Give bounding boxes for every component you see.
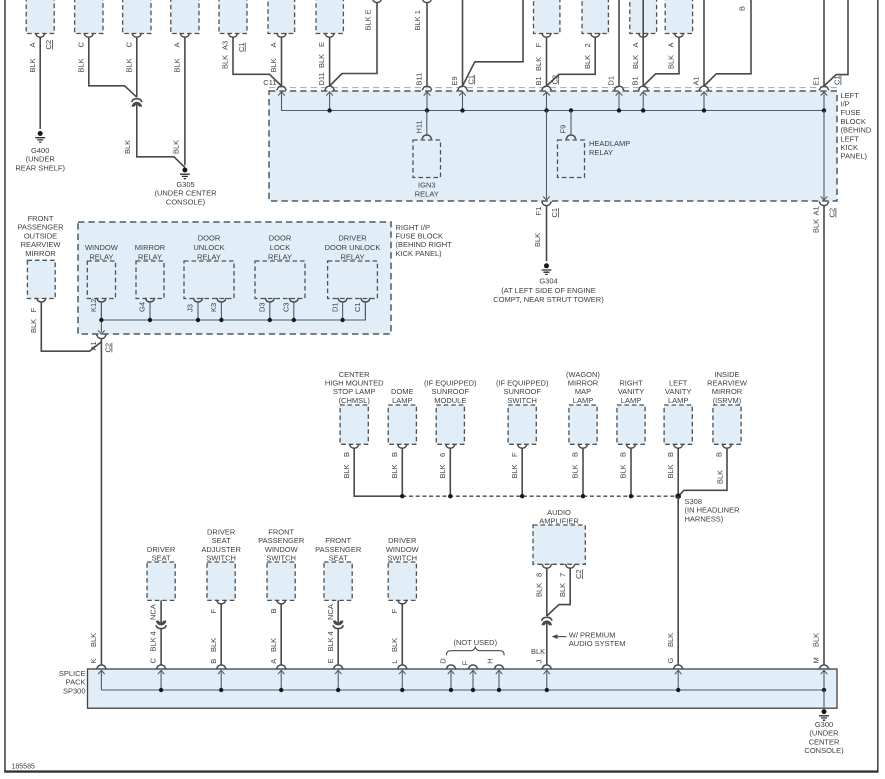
wire BLK E from box7 to D11 <box>329 37 331 86</box>
svg-text:D3: D3 <box>258 302 267 312</box>
wire BLK C from box2 joining splice to G305 <box>89 37 137 97</box>
svg-text:B: B <box>715 452 724 457</box>
left I/P internal stub at x=704 <box>703 92 705 111</box>
svg-text:D11: D11 <box>317 72 326 85</box>
svg-text:(AT LEFT SIDE OF ENGINE: (AT LEFT SIDE OF ENGINE <box>501 286 596 295</box>
relay box MIRROR RELAY <box>136 261 164 299</box>
splice pack entry connector at x=161.1 <box>156 665 166 669</box>
svg-text:BLK: BLK <box>715 470 724 484</box>
wire NCA from front passenger seat <box>337 600 339 624</box>
IGN3 relay stub wire H11 <box>426 111 428 136</box>
svg-text:G400: G400 <box>31 146 49 155</box>
wire BLK from A1 C2 to splice pack pin K <box>100 339 102 665</box>
wire BLK C from box3 <box>136 37 138 97</box>
front passenger seat box <box>324 562 352 600</box>
left I/P through line to A1 exit <box>823 111 825 200</box>
arrow into C11 <box>278 92 285 96</box>
splice pack entry connector at x=338.2 <box>333 665 343 669</box>
svg-text:BLK: BLK <box>171 140 180 154</box>
pin collar B <box>626 444 636 448</box>
svg-text:MIRROR: MIRROR <box>25 249 56 258</box>
svg-text:LAMP: LAMP <box>668 396 688 405</box>
front passenger mirror box <box>27 260 55 298</box>
driver seat adjuster switch box <box>207 562 235 600</box>
svg-text:SWITCH: SWITCH <box>206 554 236 563</box>
svg-text:PASSENGER: PASSENGER <box>315 545 362 554</box>
pin collar B <box>578 444 588 448</box>
svg-text:F: F <box>209 609 218 614</box>
svg-text:WINDOW: WINDOW <box>386 545 420 554</box>
svg-text:SEAT: SEAT <box>212 536 231 545</box>
svg-text:LAMP: LAMP <box>573 396 593 405</box>
svg-text:PASSENGER: PASSENGER <box>17 223 64 232</box>
svg-text:B: B <box>209 659 218 664</box>
connector C11 collar <box>276 86 286 90</box>
connector A1 C2 collar below right block <box>96 335 106 339</box>
brace over not used pins <box>446 647 504 655</box>
svg-text:DRIVER: DRIVER <box>207 528 236 537</box>
mirror pin collar F <box>36 298 46 302</box>
svg-text:F: F <box>510 452 519 457</box>
dashed splice bus segments S308 <box>402 495 678 497</box>
svg-text:CONSOLE): CONSOLE) <box>804 746 844 755</box>
svg-text:AUDIO: AUDIO <box>547 508 571 517</box>
pin collar at x=40.2 <box>35 33 45 37</box>
component box (IF EQUIPPED) SUNROOF MODULE <box>436 405 464 444</box>
relay HEADLAMP box <box>558 140 585 178</box>
svg-text:KICK PANEL): KICK PANEL) <box>396 249 443 258</box>
svg-text:S308: S308 <box>685 497 703 506</box>
svg-text:REARVIEW: REARVIEW <box>21 240 62 249</box>
svg-text:B11: B11 <box>415 73 424 86</box>
svg-text:BLOCK: BLOCK <box>841 117 866 126</box>
svg-text:BLK: BLK <box>533 233 542 247</box>
svg-text:RELAY: RELAY <box>197 252 221 261</box>
svg-text:B: B <box>619 452 628 457</box>
pin collar at x=233 <box>228 33 238 37</box>
svg-text:BLK: BLK <box>631 55 640 69</box>
wire BLK 4 to splice pack pin E <box>337 629 339 665</box>
svg-text:(NOT USED): (NOT USED) <box>453 638 497 647</box>
ground G304 <box>542 263 552 274</box>
svg-text:B: B <box>666 452 675 457</box>
splice pack entry connector at x=824 <box>819 665 829 669</box>
relay pin D3 <box>265 298 275 302</box>
component box CENTER HIGH MOUNTED STOP LAMP (CHMSL) <box>340 405 368 444</box>
pin collar B <box>722 444 732 448</box>
wire routed to E9 <box>463 0 524 86</box>
svg-text:BLK: BLK <box>76 58 85 72</box>
component box RIGHT VANITY LAMP <box>617 405 645 444</box>
wire BLK from ISRVM to S308 <box>678 448 727 496</box>
driver seat box <box>147 562 175 600</box>
wire BLK A3 from box5 to C11 <box>233 37 282 86</box>
svg-text:DOOR UNLOCK: DOOR UNLOCK <box>325 243 381 252</box>
svg-text:(UNDER: (UNDER <box>809 729 839 738</box>
ground G400 <box>35 131 45 142</box>
pin collar F <box>517 444 527 448</box>
svg-text:A1: A1 <box>692 76 701 85</box>
svg-text:BLK: BLK <box>619 464 628 478</box>
svg-text:ADJUSTER: ADJUSTER <box>201 545 241 554</box>
svg-text:H11: H11 <box>414 120 423 133</box>
svg-text:HIGH MOUNTED: HIGH MOUNTED <box>325 379 384 388</box>
relay pin C3 <box>289 298 299 302</box>
svg-text:PASSENGER: PASSENGER <box>258 536 305 545</box>
pin collar at x=136.8 <box>132 33 142 37</box>
in-line connector on amplifier ground wire <box>542 617 552 625</box>
connector E9 collar <box>457 86 467 90</box>
svg-text:E: E <box>326 658 335 663</box>
left I/P fuse block body <box>269 91 837 201</box>
relay pin D1 <box>338 298 348 302</box>
pin collar 6 <box>445 444 455 448</box>
svg-text:SEAT: SEAT <box>152 554 171 563</box>
wire from component x=402.3 down to splice bus <box>401 448 403 496</box>
svg-text:FRONT: FRONT <box>268 528 294 537</box>
relay pin K12 <box>96 298 106 302</box>
component box (cropped) above wire x=546.5 <box>534 0 560 34</box>
svg-text:C: C <box>124 42 133 48</box>
svg-text:BLK: BLK <box>124 58 133 72</box>
svg-text:C: C <box>76 42 85 48</box>
driver window switch box <box>388 562 416 600</box>
svg-text:A: A <box>28 42 37 47</box>
wire BLK E from cropped box to D11 <box>330 3 377 86</box>
splice pack entry connector at x=678.2 <box>673 665 683 669</box>
svg-text:LAMP: LAMP <box>392 396 412 405</box>
svg-text:E1: E1 <box>812 76 821 85</box>
svg-text:A: A <box>631 42 640 47</box>
svg-text:RIGHT: RIGHT <box>619 379 643 388</box>
svg-text:REAR SHELF): REAR SHELF) <box>15 163 65 172</box>
wire routed to E1 <box>824 0 848 86</box>
svg-text:NCA: NCA <box>326 604 335 620</box>
driver window switch pin collar F <box>397 600 407 604</box>
component box (cropped) above wire x=88.8 <box>75 0 103 34</box>
svg-text:LEFT: LEFT <box>669 379 688 388</box>
left I/P internal stub at x=329.6 <box>329 92 331 111</box>
svg-text:RELAY: RELAY <box>589 148 613 157</box>
svg-text:BLK: BLK <box>583 55 592 69</box>
svg-text:BLK: BLK <box>812 219 821 233</box>
svg-text:BLK: BLK <box>558 583 567 597</box>
splice pack entry connector at x=546.8 <box>542 665 552 669</box>
pin collar B <box>673 444 683 448</box>
right I/P fuse block body <box>78 222 391 334</box>
svg-text:B: B <box>390 452 399 457</box>
svg-text:(BEHIND RIGHT: (BEHIND RIGHT <box>396 240 453 249</box>
junction dots on right I/P bus <box>148 318 152 322</box>
svg-text:SUNROOF: SUNROOF <box>503 387 541 396</box>
splice pack entry connector at x=402.3 <box>397 665 407 669</box>
svg-text:RELAY: RELAY <box>89 252 113 261</box>
relay box WINDOW RELAY <box>87 261 115 299</box>
svg-text:LEFT: LEFT <box>841 91 860 100</box>
svg-text:CENTER: CENTER <box>339 370 370 379</box>
svg-text:K3: K3 <box>209 303 218 312</box>
svg-text:OUTSIDE: OUTSIDE <box>24 231 57 240</box>
svg-text:4: 4 <box>149 631 158 635</box>
svg-text:BLK: BLK <box>510 464 519 478</box>
svg-text:F9: F9 <box>559 125 568 134</box>
svg-text:BLK: BLK <box>571 464 580 478</box>
left I/P internal stub at x=462.5 <box>462 92 464 111</box>
svg-text:B1: B1 <box>534 76 543 85</box>
svg-text:C2: C2 <box>104 343 113 353</box>
splice pack internal bus <box>101 689 824 691</box>
svg-text:BLK: BLK <box>390 464 399 478</box>
svg-text:C11: C11 <box>263 78 276 87</box>
ground G305 <box>180 168 190 179</box>
svg-text:VANITY: VANITY <box>618 387 645 396</box>
svg-text:A: A <box>173 42 182 47</box>
wire BLK continuing to G305 <box>137 103 185 167</box>
K12 through line to A1 exit <box>100 302 102 332</box>
svg-text:SPLICE: SPLICE <box>59 669 86 678</box>
svg-text:(IN HEADLINER: (IN HEADLINER <box>685 506 741 515</box>
svg-text:C3: C3 <box>282 302 291 312</box>
pin collar at x=595.2 <box>590 33 600 37</box>
pin collar at x=546.5 <box>541 33 551 37</box>
svg-text:BLK 1: BLK 1 <box>413 10 422 30</box>
wire BLK from mirror to K12 junction <box>41 302 101 351</box>
connector B1 collar <box>541 86 551 90</box>
svg-text:DRIVER: DRIVER <box>147 545 176 554</box>
svg-text:B1: B1 <box>631 76 640 85</box>
svg-text:I/P: I/P <box>841 100 850 109</box>
svg-text:BLK: BLK <box>812 633 821 647</box>
svg-text:STOP LAMP: STOP LAMP <box>333 387 376 396</box>
wire BLK from F1 to G304 <box>546 206 548 262</box>
svg-text:BLK: BLK <box>531 647 545 656</box>
svg-text:HEADLAMP: HEADLAMP <box>589 139 630 148</box>
svg-text:C2: C2 <box>550 75 559 85</box>
wire BLK from A1 to splice pack pin M <box>823 206 825 665</box>
wire BLK 4 to splice pack pin C <box>160 629 162 665</box>
svg-text:SEAT: SEAT <box>329 554 348 563</box>
svg-text:B: B <box>269 608 278 613</box>
connector D1 collar <box>614 86 624 90</box>
wire BLK A from box4 to G305 <box>184 37 186 165</box>
left I/P internal stub at x=824 <box>823 92 825 111</box>
svg-text:KICK: KICK <box>841 143 859 152</box>
svg-text:A: A <box>269 42 278 47</box>
svg-text:DOOR: DOOR <box>269 234 292 243</box>
wire NCA from driver seat <box>160 600 162 624</box>
pin collar at x=184.9 <box>180 33 190 37</box>
svg-text:SWITCH: SWITCH <box>507 396 537 405</box>
svg-text:C1: C1 <box>833 75 842 85</box>
svg-text:HARNESS): HARNESS) <box>685 514 724 523</box>
svg-text:BLK: BLK <box>269 638 278 652</box>
wire BLK 2 from box13 to B1 <box>547 37 596 86</box>
connector E1 collar <box>819 86 829 90</box>
in-line connector on front passenger seat wire <box>333 621 343 629</box>
svg-text:SWITCH: SWITCH <box>266 554 296 563</box>
svg-text:(IF EQUIPPED): (IF EQUIPPED) <box>496 379 549 388</box>
relay pin G4 <box>145 298 155 302</box>
window switch pin collar B <box>276 600 286 604</box>
left I/P internal stub at x=619 <box>618 92 620 111</box>
svg-text:C1: C1 <box>466 75 475 85</box>
splice pack entry connector at x=499 <box>494 665 504 669</box>
pin collar B <box>349 444 359 448</box>
svg-text:REARVIEW: REARVIEW <box>707 379 748 388</box>
component box (cropped) above wire x=136.8 <box>123 0 151 34</box>
wire to E1 straight <box>823 0 825 86</box>
ground G300 <box>819 709 829 720</box>
svg-text:RELAY: RELAY <box>138 252 162 261</box>
svg-text:BLK: BLK <box>29 319 38 333</box>
svg-text:(CHMSL): (CHMSL) <box>339 396 371 405</box>
svg-text:IGN3: IGN3 <box>418 181 436 190</box>
adjuster switch pin collar F <box>216 600 226 604</box>
svg-text:G305: G305 <box>176 180 194 189</box>
component box (cropped) above wire x=233 <box>219 0 247 34</box>
svg-text:RELAY: RELAY <box>415 189 439 198</box>
component box (cropped) above wire x=184.9 <box>171 0 199 34</box>
connector B11 collar <box>422 86 432 90</box>
wire from component x=631 down to splice bus <box>630 448 632 496</box>
svg-text:LOCK: LOCK <box>270 243 290 252</box>
svg-text:RELAY: RELAY <box>268 252 292 261</box>
svg-text:SWITCH: SWITCH <box>388 554 418 563</box>
svg-text:F: F <box>461 660 470 665</box>
svg-text:SUNROOF: SUNROOF <box>432 387 470 396</box>
svg-text:185585: 185585 <box>12 763 35 770</box>
connector D11 collar <box>325 86 335 90</box>
wire BLK A from box6 to C11 <box>281 37 283 86</box>
svg-text:DRIVER: DRIVER <box>338 234 367 243</box>
wire BLK 1 to B11 <box>426 3 428 86</box>
svg-text:UNLOCK: UNLOCK <box>193 243 224 252</box>
wire BLK to splice pack pin L <box>401 604 403 665</box>
svg-text:COMPT, NEAR STRUT TOWER): COMPT, NEAR STRUT TOWER) <box>493 295 604 304</box>
svg-text:BLK: BLK <box>209 638 218 652</box>
svg-text:MODULE: MODULE <box>434 396 466 405</box>
wire BLK A from box15 routed to B1 second <box>643 37 679 86</box>
svg-text:(UNDER CENTER: (UNDER CENTER <box>154 189 217 198</box>
relay pin J3 <box>193 298 203 302</box>
svg-text:BLK: BLK <box>666 633 675 647</box>
svg-text:B: B <box>571 452 580 457</box>
headlamp relay stub wire F9 <box>570 111 572 136</box>
svg-text:C2: C2 <box>44 40 53 50</box>
connector row faint dashed line <box>269 87 837 89</box>
left I/P internal stub at x=643.2 <box>642 92 644 111</box>
svg-text:WINDOW: WINDOW <box>265 545 299 554</box>
svg-text:BLK: BLK <box>123 140 132 154</box>
svg-text:LEFT: LEFT <box>841 134 860 143</box>
left I/P internal stub at x=427 <box>426 92 428 111</box>
relay box DOOR UNLOCK RELAY <box>184 261 234 299</box>
audio amplifier box <box>533 525 585 564</box>
svg-text:(UNDER: (UNDER <box>26 155 56 164</box>
component box (cropped) above wire x=679 <box>665 0 692 34</box>
svg-text:BLK: BLK <box>390 638 399 652</box>
svg-text:RIGHT I/P: RIGHT I/P <box>396 223 430 232</box>
in-line connector on G305 wire <box>132 99 142 107</box>
svg-text:DRIVER: DRIVER <box>388 536 417 545</box>
pin collar at x=281.5 <box>276 33 286 37</box>
svg-text:AUDIO SYSTEM: AUDIO SYSTEM <box>569 639 626 648</box>
svg-text:F: F <box>390 609 399 614</box>
svg-text:LAMP: LAMP <box>621 396 641 405</box>
svg-text:(BEHIND: (BEHIND <box>841 126 872 135</box>
svg-text:BLK: BLK <box>269 58 278 72</box>
component box (cropped) above wire x=281.5 <box>268 0 295 34</box>
svg-text:8: 8 <box>535 573 544 577</box>
svg-text:DOME: DOME <box>391 387 414 396</box>
svg-text:C2: C2 <box>574 569 583 579</box>
svg-text:G4: G4 <box>138 302 147 312</box>
svg-text:6: 6 <box>438 453 447 457</box>
svg-text:INSIDE: INSIDE <box>714 370 739 379</box>
junction dots on splice pack bus <box>159 688 163 692</box>
splice pack entry connector at x=451 <box>446 665 456 669</box>
svg-text:J3: J3 <box>186 304 195 312</box>
svg-text:BLK: BLK <box>535 583 544 597</box>
svg-text:D1: D1 <box>330 302 339 312</box>
junction dots on splice bus <box>400 494 404 498</box>
svg-text:A: A <box>667 42 676 47</box>
connector B1 second collar <box>638 86 648 90</box>
wire BLK from S308 to splice pack pin G <box>677 496 679 664</box>
relay box DOOR LOCK RELAY <box>255 261 305 299</box>
svg-text:L: L <box>390 660 399 664</box>
svg-text:E: E <box>317 42 326 47</box>
svg-text:BLK: BLK <box>534 57 543 71</box>
wire BLK to splice pack pin J <box>546 622 548 665</box>
svg-text:C1: C1 <box>353 302 362 312</box>
wire BLK to splice pack pin B <box>220 604 222 665</box>
svg-text:VANITY: VANITY <box>665 387 692 396</box>
svg-text:G304: G304 <box>539 277 557 286</box>
svg-text:7: 7 <box>558 573 567 577</box>
svg-text:K12: K12 <box>89 299 98 312</box>
left I/P internal stub at x=546.5 <box>546 92 548 111</box>
svg-text:FUSE: FUSE <box>841 108 861 117</box>
connector A1 C2 collar <box>819 202 829 206</box>
svg-text:K: K <box>89 658 98 663</box>
wire from CHMSL to headliner splice bus <box>354 448 402 496</box>
wire from component x=522.2 down to splice bus <box>521 448 523 496</box>
wire to A1 straight <box>703 0 705 86</box>
svg-text:G300: G300 <box>815 720 833 729</box>
left I/P internal bus wire <box>282 92 825 111</box>
splice pack entry connector at x=281.2 <box>276 665 286 669</box>
wire BLK F from box12 to B1 <box>546 37 548 86</box>
svg-text:BLK: BLK <box>667 55 676 69</box>
svg-text:G: G <box>666 658 675 664</box>
svg-text:A1: A1 <box>89 341 98 350</box>
svg-text:FRONT: FRONT <box>325 536 351 545</box>
svg-text:BLK: BLK <box>666 464 675 478</box>
svg-text:BLK: BLK <box>438 464 447 478</box>
component box (cropped) above wire x=643.2 <box>630 0 657 34</box>
svg-text:(ISRVM): (ISRVM) <box>713 396 742 405</box>
svg-text:CENTER: CENTER <box>809 737 840 746</box>
wire from LEFT VANITY LAMP to S308 <box>677 448 679 496</box>
svg-text:(IF EQUIPPED): (IF EQUIPPED) <box>424 379 477 388</box>
wire from component x=450.3 down to splice bus <box>449 448 451 496</box>
component box LEFT VANITY LAMP <box>664 405 692 444</box>
svg-text:B: B <box>738 6 747 11</box>
svg-text:FUSE BLOCK: FUSE BLOCK <box>396 232 444 241</box>
svg-text:CONSOLE): CONSOLE) <box>166 197 206 206</box>
svg-text:E9: E9 <box>450 76 459 85</box>
